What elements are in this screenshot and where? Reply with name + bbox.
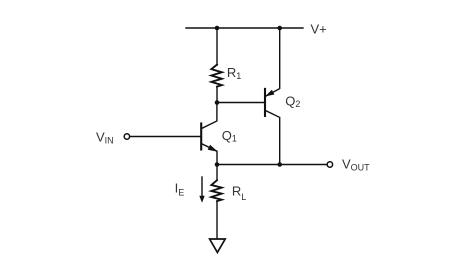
node: junction dot on rail above R1 [215, 26, 220, 31]
transistor Q1 emitter lead with NPN arrow [202, 144, 217, 165]
transistor Q1 base bar [200, 124, 202, 150]
svg-text:Q2: Q2 [285, 93, 300, 109]
wire: output line [217, 164, 327, 166]
wire: R_L bottom lead to ground [216, 201, 218, 239]
svg-text:IE: IE [175, 181, 185, 198]
node: junction dot at Q1 emitter on output line [215, 162, 220, 167]
transistor Q2 base bar [264, 89, 266, 116]
svg-text:R1: R1 [227, 65, 241, 81]
ground [210, 239, 226, 252]
node A: junction dot (Q1 collector / R1 / Q2 base) [215, 100, 220, 105]
wire: V+ supply rail [186, 27, 303, 29]
resistor R1 [211, 65, 222, 87]
svg-text:VOUT: VOUT [342, 156, 370, 172]
svg-text:V+: V+ [311, 21, 327, 36]
transistor Q1 collector lead [202, 103, 217, 129]
transistor Q2 collector lead to output node [266, 111, 280, 165]
wire: R1 bottom lead to node A [216, 87, 218, 103]
wire: Q1 base lead from input terminal [130, 136, 201, 138]
svg-text:VIN: VIN [96, 129, 114, 145]
node: junction dot at Q2 collector on output line [277, 162, 282, 167]
wire: R1 top lead from rail [216, 28, 218, 65]
wire: R_L top lead from output node [216, 165, 218, 181]
terminal: V_IN open circle [124, 134, 129, 139]
transistor Q2 emitter lead with PNP arrow (to V+) [266, 28, 280, 96]
wire: node A to Q2 base [217, 102, 264, 104]
node: junction dot on rail above Q2 emitter [277, 26, 282, 31]
svg-text:RL: RL [232, 184, 246, 202]
terminal: V_OUT open circle [327, 162, 332, 167]
resistor RL [211, 180, 221, 201]
svg-text:Q1: Q1 [222, 128, 237, 144]
current arrow I_E [201, 177, 203, 198]
